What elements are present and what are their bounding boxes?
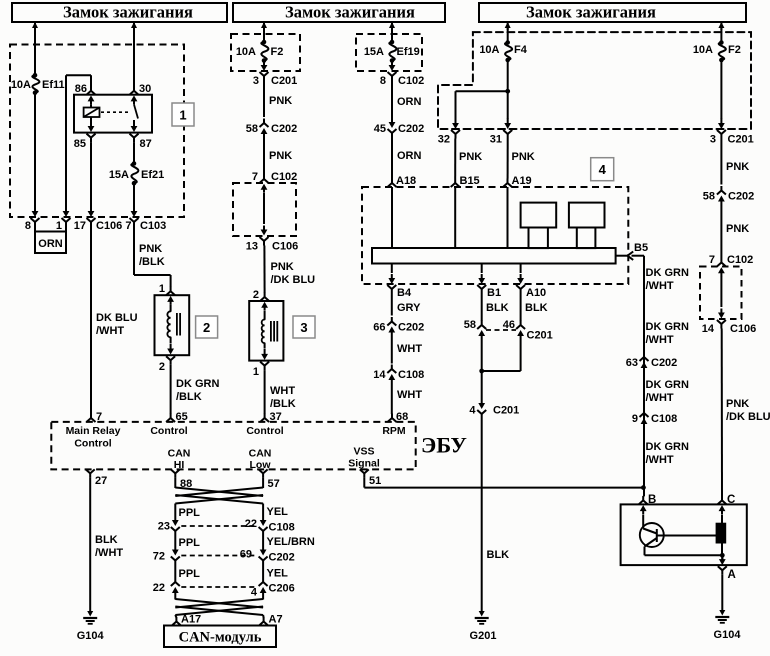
instrument B entry arrow — [640, 505, 647, 514]
output B5 — [616, 242, 648, 260]
svg-text:31: 31 — [490, 134, 502, 146]
svg-text:CAN: CAN — [249, 448, 272, 460]
connector 8 C102 — [380, 60, 424, 87]
wire YEL/BRN — [263, 536, 315, 549]
svg-text:8: 8 — [25, 220, 31, 232]
label box 1 — [172, 103, 194, 126]
svg-text:10A: 10A — [11, 79, 31, 91]
svg-text:G104: G104 — [77, 630, 105, 642]
svg-text:YEL/BRN: YEL/BRN — [267, 536, 315, 548]
wire through connector box — [261, 184, 268, 236]
instrument pin A — [718, 566, 736, 581]
connector 58 C202 right — [703, 186, 755, 207]
svg-text:WHT: WHT — [270, 385, 295, 397]
ECU pin 27 — [86, 469, 108, 487]
wire B1 down to junction — [481, 341, 483, 371]
wire ORN segment — [392, 80, 422, 117]
svg-text:RPM: RPM — [382, 425, 406, 437]
instrument C entry arrow — [719, 505, 726, 514]
connector 13 C106 — [246, 237, 299, 253]
ORN splice box — [35, 226, 66, 254]
connector 3 C201 — [253, 60, 297, 87]
svg-text:PNK: PNK — [269, 150, 292, 162]
relay switch blade — [134, 105, 138, 119]
svg-text:17: 17 — [74, 220, 86, 232]
component 4 dashed box — [362, 187, 628, 284]
svg-text:58: 58 — [703, 191, 715, 203]
svg-text:Ef11: Ef11 — [42, 79, 65, 91]
wire F4 down with branch — [456, 60, 511, 119]
wire BLK to G201 — [482, 419, 509, 612]
coil 3 pin 1 — [253, 362, 269, 378]
connector A19 — [503, 175, 532, 187]
dashed enclosure box around relay 1 — [10, 45, 184, 218]
coil 2 pin 1 — [159, 283, 175, 295]
wire 13 C106 to coil 3 — [263, 246, 265, 294]
wire A to ground — [721, 575, 723, 610]
ECU pin 57 — [259, 469, 280, 490]
fuse F2 dashed box — [231, 34, 300, 71]
svg-text:PNK: PNK — [269, 95, 292, 107]
svg-text:46: 46 — [503, 319, 515, 331]
svg-text:/WHT: /WHT — [95, 547, 123, 559]
coil 2 winding — [167, 311, 170, 337]
svg-text:F2: F2 — [271, 46, 284, 58]
wire to 4 C201 — [481, 371, 483, 398]
wire VSS signal — [364, 478, 643, 488]
svg-text:14: 14 — [702, 323, 715, 335]
svg-text:F2: F2 — [728, 44, 741, 56]
ECU label Control 65 — [150, 425, 187, 437]
svg-text:PNK: PNK — [726, 223, 749, 235]
svg-text:/WHT: /WHT — [646, 280, 674, 292]
relay coil to pin 85 arrow — [88, 121, 95, 132]
wire label DK GRN/WHT 4 — [646, 441, 689, 466]
svg-text:7: 7 — [125, 220, 131, 232]
instrument box — [621, 504, 747, 565]
svg-text:30: 30 — [139, 83, 151, 95]
svg-text:BLK: BLK — [487, 549, 510, 561]
module pin A10 — [516, 264, 546, 300]
fuse Ef19 15A — [364, 40, 420, 63]
wire Ef21 to connector 7 C103 — [133, 183, 135, 206]
wire ignition to fuse F2 — [263, 22, 265, 42]
svg-text:51: 51 — [369, 475, 381, 487]
wire BLK/WHT to G104 — [90, 478, 123, 611]
svg-text:3: 3 — [710, 134, 716, 146]
svg-text:C102: C102 — [398, 75, 424, 87]
wire YEL 1 — [263, 504, 288, 519]
ECU pin 51 — [360, 469, 381, 487]
svg-text:ORN: ORN — [397, 96, 422, 108]
svg-text:B: B — [648, 494, 656, 506]
svg-text:PPL: PPL — [179, 568, 201, 580]
wire label DK BLU/WHT — [96, 312, 138, 337]
svg-text:F4: F4 — [514, 44, 528, 56]
svg-text:22: 22 — [153, 582, 165, 594]
connector pin 1 — [56, 206, 71, 232]
junction emitter/resistor — [645, 553, 725, 558]
svg-text:C202: C202 — [398, 123, 424, 135]
svg-text:ЭБУ: ЭБУ — [421, 433, 467, 458]
relay pin 87 — [130, 134, 152, 150]
svg-text:1: 1 — [56, 220, 62, 232]
svg-text:/BLK: /BLK — [139, 256, 165, 268]
svg-text:GRY: GRY — [397, 302, 421, 314]
wire PNK segment — [264, 80, 292, 117]
wire PPL 1 — [175, 504, 200, 520]
svg-text:DK BLU: DK BLU — [96, 312, 138, 324]
transistor collector line — [657, 535, 716, 537]
svg-text:DK GRN: DK GRN — [646, 379, 689, 391]
connector 45 C202 — [374, 117, 425, 138]
svg-text:14: 14 — [373, 369, 386, 381]
svg-text:WHT: WHT — [397, 389, 422, 401]
svg-text:58: 58 — [246, 123, 258, 135]
svg-text:C102: C102 — [271, 171, 297, 183]
svg-text:2: 2 — [203, 320, 210, 335]
module bar — [372, 248, 616, 264]
svg-text:PNK: PNK — [726, 161, 749, 173]
ground G201 — [470, 611, 497, 642]
svg-text:BLK: BLK — [486, 302, 509, 314]
wire coil2 to ECU pin 65 — [170, 365, 172, 414]
svg-text:58: 58 — [464, 319, 476, 331]
svg-text:C103: C103 — [140, 220, 166, 232]
wire B15 inside — [454, 187, 456, 248]
relay switch to pin 87 arrow — [131, 120, 138, 132]
label box 4 — [591, 158, 614, 181]
svg-text:/BLK: /BLK — [176, 391, 202, 403]
coil 2 entry arrow — [167, 296, 174, 311]
wire A18 inside — [391, 187, 393, 248]
svg-text:CAN: CAN — [168, 448, 191, 460]
wire label WHT/BLK — [270, 385, 296, 410]
coil 2 core lines — [177, 313, 180, 336]
svg-text:C202: C202 — [651, 357, 677, 369]
ECU dashed box — [51, 422, 415, 470]
svg-text:/DK BLU: /DK BLU — [271, 274, 316, 286]
wire C to resistor — [721, 515, 723, 524]
svg-text:A: A — [728, 569, 736, 581]
ECU label CAN Low — [249, 448, 272, 472]
transistor symbol — [643, 515, 657, 556]
coil 3 box — [249, 301, 283, 361]
fuse Ef19 dashed box — [356, 34, 422, 71]
connector A7 — [259, 614, 282, 626]
resistor (filled) — [716, 523, 726, 543]
svg-text:C102: C102 — [727, 254, 753, 266]
relay coil — [84, 105, 100, 122]
arrowhead into ignition box at x=35 — [32, 22, 38, 30]
svg-text:Signal: Signal — [348, 458, 380, 470]
wire PPL 2 — [175, 536, 200, 550]
ECU label VSS Signal — [348, 446, 380, 470]
wire F2 to connector 3 C201 — [263, 60, 265, 62]
svg-text:A18: A18 — [396, 175, 416, 187]
svg-text:Ef21: Ef21 — [141, 169, 164, 181]
coil 3 core lines — [271, 321, 277, 342]
connector pin 7 C103 — [125, 206, 166, 232]
wire PNK right — [721, 139, 749, 185]
svg-text:C201: C201 — [527, 330, 553, 342]
connector 63 C202 — [626, 353, 678, 374]
ECU label RPM — [382, 425, 406, 437]
wire label DK GRN/WHT 3 — [646, 379, 689, 404]
twisted pair 1 — [175, 488, 263, 504]
svg-text:3: 3 — [253, 75, 259, 87]
connector 68 RPM — [388, 411, 409, 423]
svg-text:C108: C108 — [398, 369, 424, 381]
connector 9 C108 — [632, 409, 677, 430]
svg-text:C106: C106 — [96, 220, 122, 232]
relay pin 86 — [75, 83, 96, 104]
wire pin85 to connector 17 — [90, 142, 92, 206]
coil 3 winding — [262, 320, 265, 344]
ground G104 left — [77, 611, 105, 642]
wire fuse F2 right — [720, 22, 722, 43]
wire 17 C106 down to ECU pin 7 — [90, 226, 92, 415]
wire label DK GRN/WHT 1 — [646, 267, 689, 292]
fuse F2 right 10A — [693, 40, 741, 62]
svg-text:/WHT: /WHT — [646, 392, 674, 404]
dashed connector box right — [700, 267, 742, 320]
ignition switch box (middle) — [233, 3, 445, 23]
svg-text:7: 7 — [96, 411, 102, 423]
svg-text:4: 4 — [251, 587, 258, 599]
svg-text:A19: A19 — [512, 175, 532, 187]
wire A19 inside — [507, 187, 509, 248]
ECU pin 65 — [166, 411, 188, 423]
ignition switch box (right) — [479, 3, 746, 23]
ECU label Main Relay Control — [66, 425, 121, 450]
svg-text:C202: C202 — [398, 322, 424, 334]
svg-text:G104: G104 — [714, 629, 742, 641]
svg-text:Control: Control — [74, 438, 111, 450]
svg-text:B15: B15 — [460, 175, 480, 187]
svg-text:72: 72 — [153, 551, 165, 563]
svg-text:C202: C202 — [271, 123, 297, 135]
svg-text:A10: A10 — [526, 287, 546, 299]
wire ignition to fuse Ef11 — [34, 22, 36, 75]
wire F2 right down — [720, 60, 722, 119]
svg-text:PPL: PPL — [179, 537, 201, 549]
svg-text:8: 8 — [380, 75, 386, 87]
coil 2 box — [155, 295, 190, 355]
svg-text:87: 87 — [140, 138, 152, 150]
fuse Ef11 10A — [11, 73, 65, 95]
wire label PNK/DK BLU — [271, 261, 316, 286]
coil 3 pin 2 — [253, 289, 269, 301]
svg-text:C201: C201 — [493, 405, 519, 417]
wire WHT — [392, 338, 423, 364]
svg-text:3: 3 — [300, 320, 307, 335]
svg-text:WHT: WHT — [397, 343, 422, 355]
svg-text:C108: C108 — [651, 413, 677, 425]
svg-text:2: 2 — [159, 361, 165, 373]
svg-text:YEL: YEL — [267, 568, 289, 580]
svg-text:PPL: PPL — [179, 507, 201, 519]
ECU name — [421, 433, 467, 458]
arrowhead into ignition box at x=134 — [131, 22, 137, 30]
wire ignition to fuse F4 — [507, 22, 509, 43]
connector 3 C201 right — [710, 118, 754, 146]
twisted pair 2 — [175, 598, 263, 615]
wire CAN HI stub — [174, 478, 176, 488]
wire WHT 2 — [392, 385, 423, 414]
svg-text:A7: A7 — [269, 614, 283, 626]
connector 14 C106 — [702, 320, 757, 335]
svg-text:1: 1 — [253, 366, 259, 378]
coil 2 pin 2 — [159, 356, 175, 373]
module coil tower 1 — [521, 203, 557, 249]
svg-text:BLK: BLK — [95, 534, 118, 546]
connector A17 — [172, 614, 201, 626]
connector 7 C102 right — [709, 254, 753, 267]
fuse Ef21 15A — [109, 161, 164, 185]
connector pin 17 C106 — [74, 206, 123, 232]
connector pin 8 — [25, 206, 40, 232]
wire resistor to junction — [721, 543, 723, 555]
svg-text:Замок зажигания: Замок зажигания — [526, 3, 656, 22]
wire PNK to A19 — [508, 139, 535, 179]
svg-text:G201: G201 — [470, 630, 497, 642]
wire GRY — [392, 294, 421, 316]
svg-text:/BLK: /BLK — [270, 398, 296, 410]
svg-text:A17: A17 — [181, 614, 201, 626]
wire to A7 — [262, 615, 265, 618]
wire PPL 3 — [175, 565, 200, 580]
svg-text:Control: Control — [150, 425, 187, 437]
relay 1 box — [74, 95, 152, 133]
label box 3 — [293, 316, 315, 338]
wire through right connector box — [718, 267, 725, 318]
svg-text:DK GRN: DK GRN — [176, 378, 219, 390]
svg-text:13: 13 — [246, 241, 258, 253]
wire ORN segment 2 — [392, 138, 422, 179]
wire BLK from A10 — [521, 294, 548, 322]
svg-text:69: 69 — [240, 549, 252, 561]
wire PNK to B15 — [455, 139, 482, 179]
dashed link coil to switch — [101, 111, 128, 113]
dashed connector box C102-C106 — [233, 183, 296, 236]
svg-text:23: 23 — [158, 521, 170, 533]
svg-text:B5: B5 — [634, 242, 648, 254]
CAN module box — [164, 626, 276, 648]
coil 3 exit arrow — [261, 343, 268, 360]
module pin B1 — [477, 264, 501, 300]
ECU pin 37 — [260, 411, 282, 423]
svg-text:10A: 10A — [236, 46, 256, 58]
svg-text:C202: C202 — [728, 191, 754, 203]
svg-text:85: 85 — [74, 138, 86, 150]
wire label DK GRN/WHT 2 — [646, 321, 689, 346]
svg-text:45: 45 — [374, 123, 386, 135]
wire B5 to instrument B — [632, 256, 645, 497]
arrowhead into ignition box at x=507.7 — [505, 22, 511, 30]
svg-text:1: 1 — [159, 283, 165, 295]
arrowhead into ignition box at x=264 — [261, 22, 267, 30]
connector 32 — [438, 118, 460, 146]
svg-text:37: 37 — [270, 411, 282, 423]
arrowhead into ignition box at x=721.4 — [718, 22, 724, 30]
svg-text:/DK BLU: /DK BLU — [726, 411, 770, 423]
svg-text:C106: C106 — [730, 323, 756, 335]
ECU pin 88 — [171, 469, 192, 490]
svg-text:C206: C206 — [269, 583, 295, 595]
svg-text:C201: C201 — [271, 75, 297, 87]
wire coil3 to ECU pin 37 — [264, 370, 266, 414]
svg-text:DK GRN: DK GRN — [646, 441, 689, 453]
svg-text:63: 63 — [626, 357, 638, 369]
svg-text:32: 32 — [438, 134, 450, 146]
connector 58 C202 — [246, 119, 298, 140]
connector 4 C201 — [469, 398, 519, 419]
svg-text:Замок зажигания: Замок зажигания — [285, 3, 415, 22]
connector 66 C202 — [373, 317, 424, 338]
wire pin86 up-over to pin 1 — [66, 75, 91, 206]
fuse F4 10A — [479, 40, 527, 62]
coil 2 exit arrow — [167, 337, 174, 354]
svg-text:PNK: PNK — [512, 151, 535, 163]
svg-text:57: 57 — [268, 478, 280, 490]
svg-text:PNK: PNK — [271, 261, 294, 273]
wire PNK right 2 — [721, 207, 749, 259]
wire to A17 — [175, 615, 176, 618]
junction VSS to instrument — [641, 485, 646, 490]
junction merge — [479, 369, 520, 374]
svg-text:CAN-модуль: CAN-модуль — [179, 630, 262, 646]
svg-text:C202: C202 — [269, 552, 295, 564]
svg-text:Control: Control — [246, 425, 283, 437]
svg-text:65: 65 — [176, 411, 188, 423]
svg-text:15A: 15A — [364, 46, 384, 58]
transistor circle — [640, 523, 664, 547]
svg-text:/WHT: /WHT — [96, 325, 124, 337]
svg-text:C201: C201 — [728, 134, 754, 146]
wire label PNK/BLK — [139, 243, 165, 268]
wire PNK segment 2 — [264, 139, 292, 175]
instrument pin C — [718, 494, 736, 506]
relay pin 30 — [130, 83, 152, 104]
svg-text:C: C — [727, 494, 735, 506]
svg-text:7: 7 — [252, 171, 258, 183]
ECU pin 7 — [87, 411, 103, 423]
wire 7 C103 to coil 2 — [134, 226, 171, 288]
svg-text:22: 22 — [245, 518, 257, 530]
fuse F2 10A — [236, 40, 284, 63]
svg-text:Main Relay: Main Relay — [66, 425, 121, 437]
connector A18 — [388, 175, 417, 187]
svg-text:BLK: BLK — [525, 302, 548, 314]
svg-text:/WHT: /WHT — [646, 454, 674, 466]
svg-text:2: 2 — [253, 289, 259, 301]
svg-text:YEL: YEL — [267, 506, 289, 518]
svg-text:10A: 10A — [479, 44, 499, 56]
svg-text:7: 7 — [709, 254, 715, 266]
svg-text:10A: 10A — [693, 44, 713, 56]
connector 14 C108 — [373, 365, 424, 386]
svg-text:Замок зажигания: Замок зажигания — [63, 3, 193, 22]
svg-text:B4: B4 — [397, 287, 412, 299]
wire BLK from B1 — [482, 294, 509, 322]
svg-text:27: 27 — [95, 475, 107, 487]
svg-text:DK GRN: DK GRN — [646, 267, 689, 279]
wire YEL 2 — [263, 565, 288, 580]
svg-text:PNK: PNK — [139, 243, 162, 255]
svg-text:PNK: PNK — [726, 398, 749, 410]
svg-text:B1: B1 — [487, 287, 501, 299]
